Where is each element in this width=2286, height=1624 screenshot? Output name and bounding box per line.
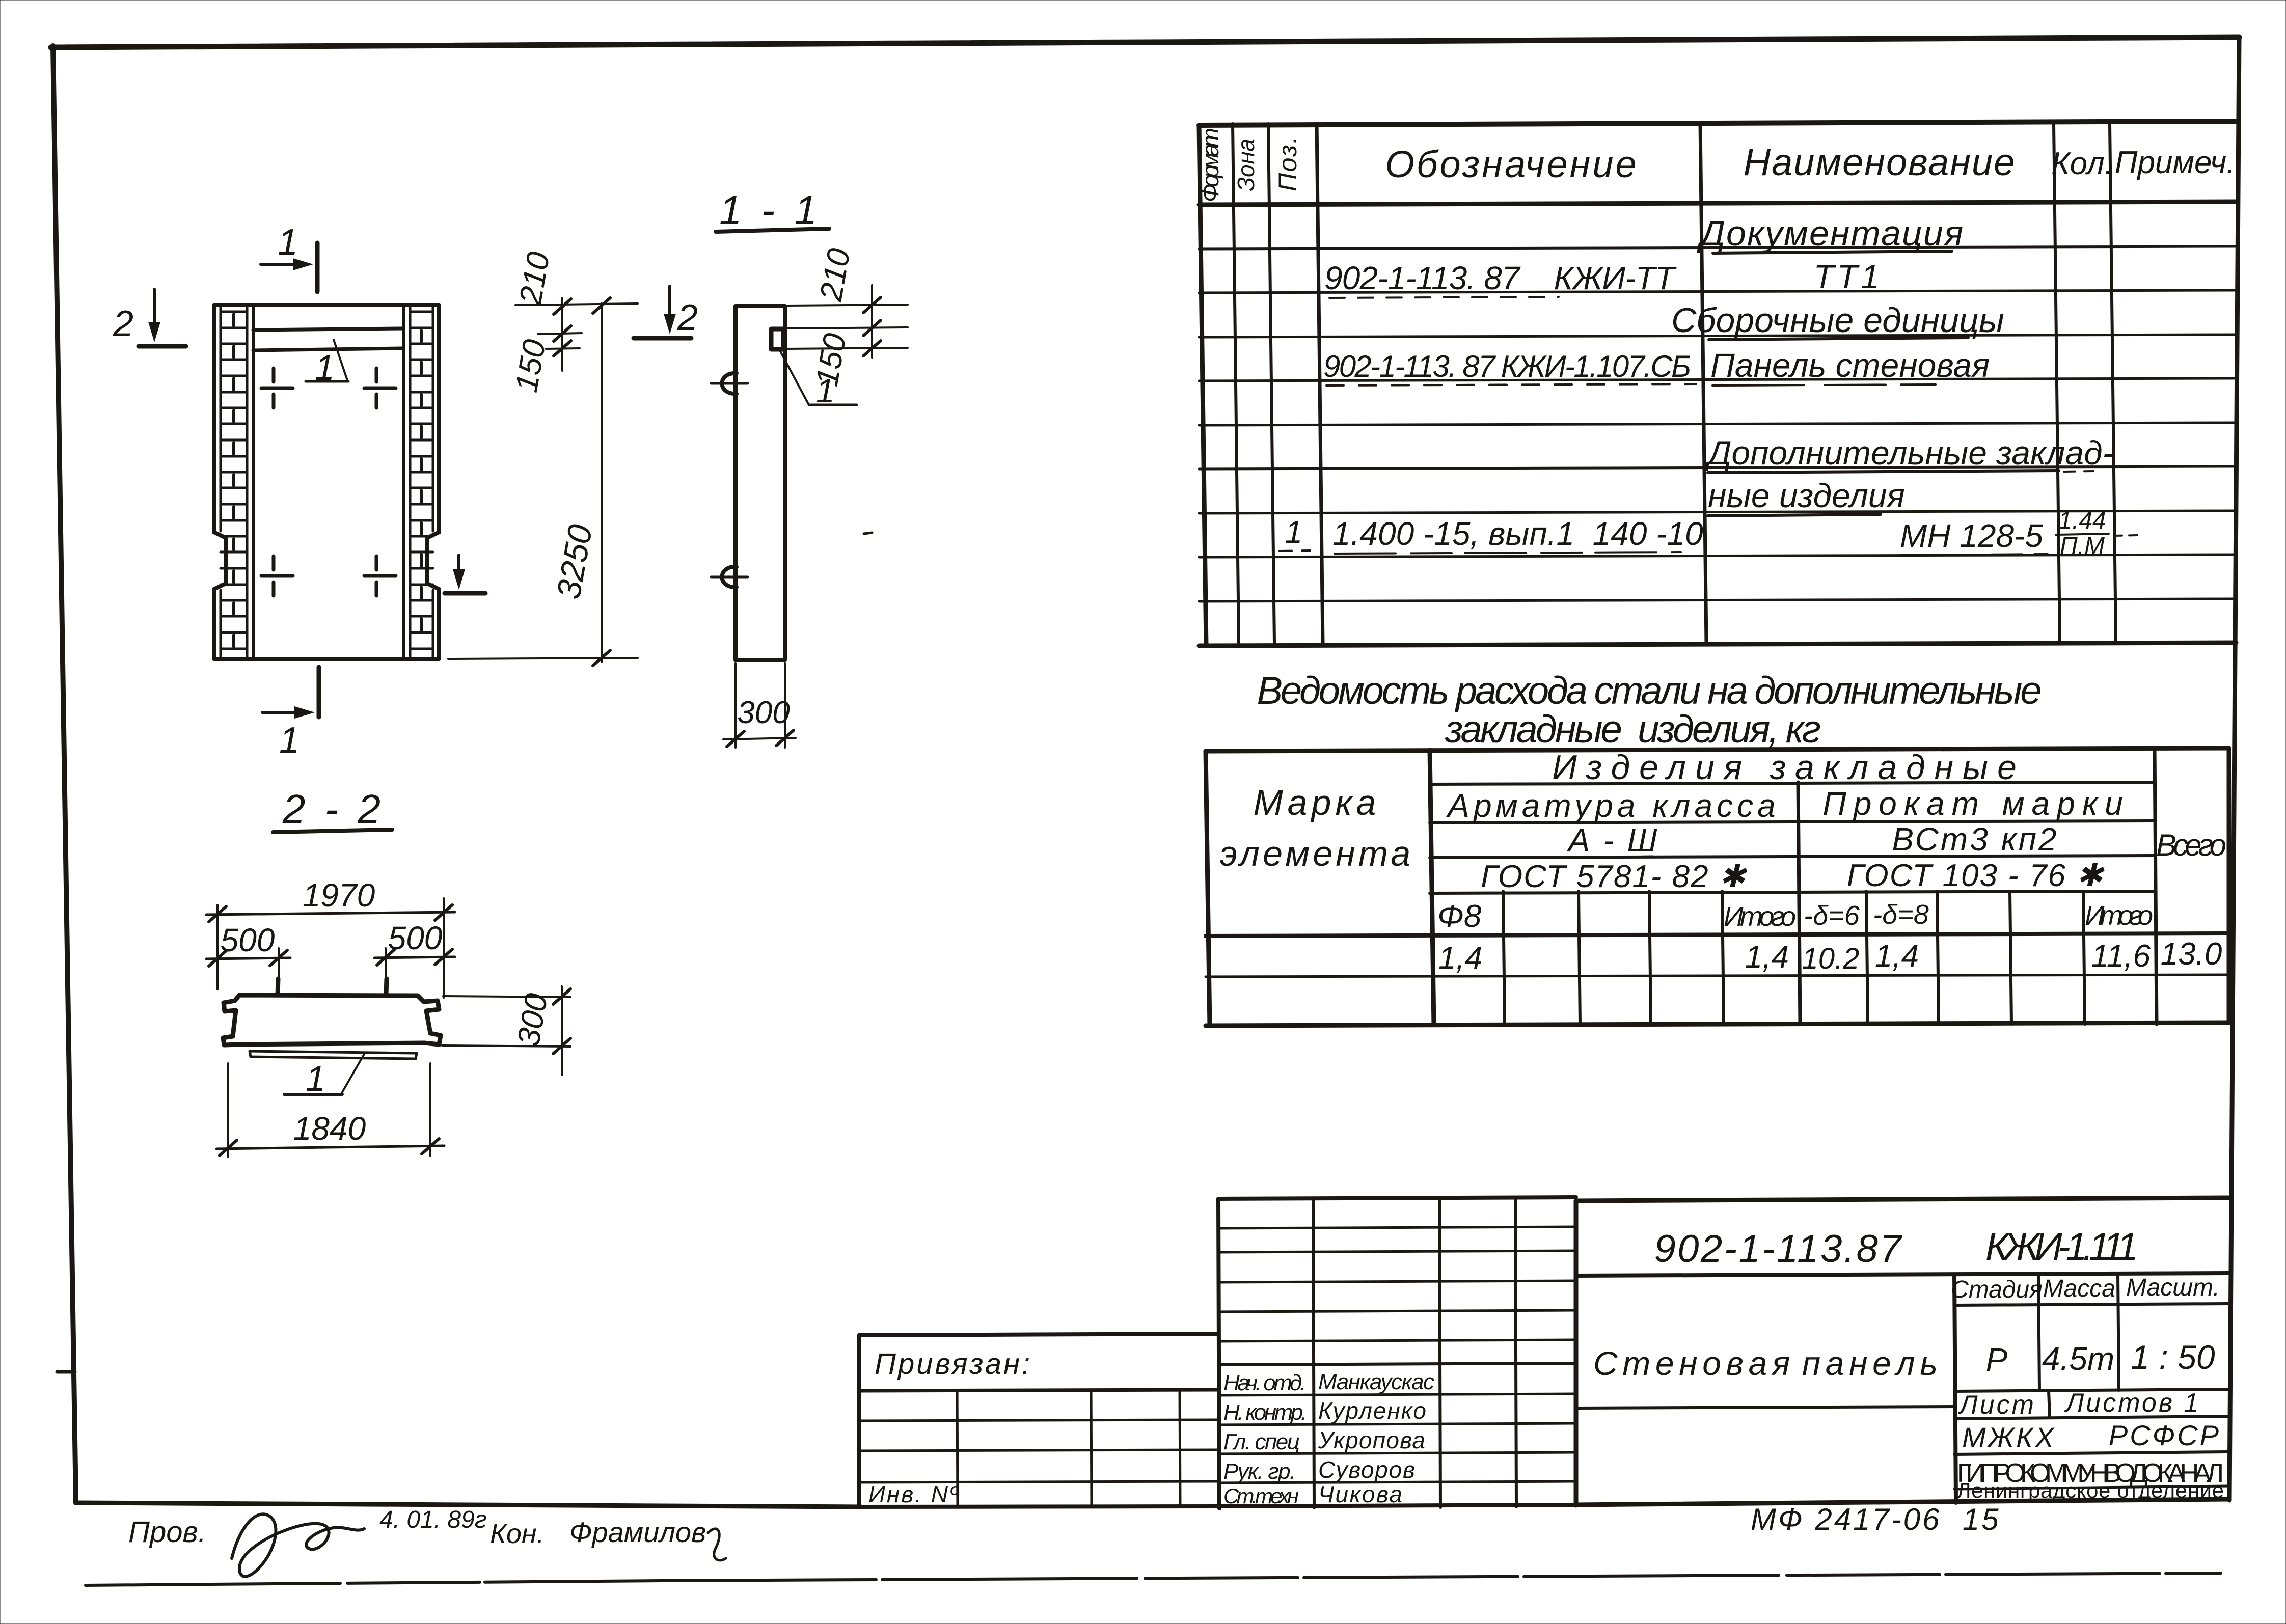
table header Арматура класса	[1446, 787, 1779, 824]
text ГИПРОКОММУНВОДОКАНАЛ	[1957, 1458, 2224, 1488]
text Привязан:	[875, 1347, 1032, 1381]
svg-text:Поз.: Поз.	[1273, 136, 1302, 191]
signature row Н. контр. Курленко	[1223, 1397, 1426, 1425]
svg-text:210: 210	[513, 250, 557, 308]
dimension text 3250	[549, 521, 599, 602]
svg-text:3250: 3250	[549, 521, 599, 602]
sheet frame left border	[53, 46, 76, 1503]
handwritten signature squiggle	[232, 1514, 364, 1576]
header Всего	[2156, 828, 2226, 862]
embedded plate strip under slab	[250, 1051, 417, 1059]
dimension extension lines section 1-1 top	[785, 305, 908, 349]
svg-text:Суворов: Суворов	[1318, 1456, 1415, 1483]
svg-text:300: 300	[511, 991, 555, 1049]
table header ГОСТ 5781-82	[1481, 859, 1748, 894]
title block v-line name/stamp divider	[1954, 1275, 1956, 1503]
svg-text:Гл. спец: Гл. спец	[1223, 1429, 1300, 1454]
svg-text:Чикова: Чикова	[1318, 1481, 1402, 1507]
subheader Итого (right)	[2085, 900, 2153, 931]
sheet frame bottom border	[76, 1503, 861, 1507]
svg-text:150: 150	[809, 331, 853, 389]
text 4.5т	[2042, 1340, 2114, 1377]
dimension text 150 (1-1)	[809, 331, 853, 389]
svg-text:Марка: Марка	[1254, 783, 1380, 822]
svg-text:Сборочные единицы: Сборочные единицы	[1671, 301, 2004, 340]
handwritten Пров.	[128, 1516, 206, 1549]
svg-text:Документация: Документация	[1697, 213, 1965, 253]
dimension 1840	[216, 1063, 444, 1157]
data 10.2	[1802, 942, 1860, 975]
specification table grid	[1199, 121, 2236, 646]
svg-text:закладные изделия, кг: закладные изделия, кг	[1445, 708, 1822, 751]
section mark 2 on section 1-1	[634, 286, 698, 338]
svg-text:500: 500	[221, 922, 275, 958]
line under Стеновая панель cell	[1576, 1407, 1954, 1408]
spec header label Зона (rotated)	[1233, 139, 1259, 191]
svg-text:Изделия закладные: Изделия закладные	[1552, 748, 2026, 787]
text Лист	[1958, 1390, 2036, 1420]
svg-text:Итого: Итого	[2085, 900, 2153, 931]
svg-text:Инв. Nº: Инв. Nº	[868, 1481, 960, 1507]
table header Прокат марки	[1822, 785, 2130, 822]
svg-text:Формат: Формат	[1197, 128, 1223, 202]
svg-text:Масса: Масса	[2043, 1275, 2115, 1302]
stray mark near section 1-1	[864, 533, 872, 534]
svg-text:Лист: Лист	[1958, 1390, 2036, 1420]
svg-text:Пров.: Пров.	[128, 1516, 206, 1549]
svg-text:1,4: 1,4	[1745, 940, 1789, 975]
svg-text:4. 01. 89г: 4. 01. 89г	[379, 1506, 487, 1533]
spec header Примеч.	[2115, 145, 2236, 180]
spec row Документация	[1697, 213, 1965, 253]
svg-text:Листов 1: Листов 1	[2064, 1388, 2201, 1418]
leader to item 1 (section 1-1)	[780, 351, 857, 409]
text Инв. №	[868, 1481, 960, 1507]
spec row Сборочные единицы	[1671, 301, 2004, 340]
svg-text:ГОСТ 103 - 76 ✱: ГОСТ 103 - 76 ✱	[1847, 858, 2105, 893]
svg-text:Дополнительные заклад-: Дополнительные заклад-	[1704, 434, 2114, 472]
svg-text:1: 1	[315, 348, 335, 388]
svg-text:11,6: 11,6	[2091, 939, 2151, 974]
dimension 300 bottom (1-1)	[723, 663, 796, 748]
svg-text:1,4: 1,4	[1438, 941, 1482, 976]
svg-text:4.5т: 4.5т	[2042, 1340, 2114, 1377]
front view: left strip tick dashes	[232, 314, 235, 647]
title block main outline	[1576, 1198, 2228, 1505]
dimension ticks	[554, 298, 610, 666]
line under МЖКХ РСФСР row	[1954, 1452, 2228, 1454]
spec row 1.44/П.М fraction	[2056, 507, 2137, 560]
svg-text:КЖИ-1.111: КЖИ-1.111	[1985, 1225, 2138, 1269]
spec row Панель стеновая	[1710, 346, 1990, 386]
svg-text:-δ=8: -δ=8	[1873, 899, 1929, 930]
svg-text:Масшт.: Масшт.	[2126, 1274, 2220, 1301]
text МФ 2417-06 15	[1751, 1502, 2001, 1536]
text 1:50	[2131, 1338, 2215, 1376]
section 2-2 heading	[273, 786, 392, 832]
svg-text:10.2: 10.2	[1802, 942, 1860, 975]
svg-text:Ст.техн: Ст.техн	[1223, 1484, 1299, 1508]
subheader -б=8	[1873, 899, 1929, 930]
spec header Наименование	[1744, 141, 2016, 183]
svg-text:Нач. отд.: Нач. отд.	[1223, 1370, 1306, 1395]
svg-text:Итого: Итого	[1724, 901, 1796, 932]
dimension 500 left	[206, 922, 290, 993]
svg-text:2: 2	[677, 297, 698, 338]
tick mark on left border	[57, 1370, 75, 1374]
leader to item 1 (section 2-2)	[284, 1053, 365, 1098]
svg-text:Примеч.: Примеч.	[2115, 145, 2236, 180]
svg-text:1970: 1970	[303, 877, 375, 914]
svg-text:Манкаускас: Манкаускас	[1318, 1369, 1434, 1394]
front view: loop center mark top-left	[261, 368, 293, 408]
section 2-2 slab outline	[223, 995, 441, 1045]
spec row ТТ1	[1813, 258, 1882, 295]
spec header Обозначение	[1385, 143, 1638, 185]
text Ленинградское отделение	[1957, 1478, 2224, 1502]
text КЖИ-1.111	[1985, 1225, 2138, 1269]
svg-text:1: 1	[1285, 515, 1302, 550]
heading line 2	[1445, 708, 1822, 751]
spec row МН 128-5	[1900, 517, 2048, 555]
signature row Нач. отд. Манкаускас	[1223, 1369, 1434, 1395]
svg-text:Стадия: Стадия	[1951, 1276, 2043, 1303]
table header ВСт3 кп2	[1892, 821, 2058, 858]
section 1-1 panel outline	[736, 306, 785, 660]
svg-text:Наименование: Наименование	[1744, 141, 2016, 183]
dimension ticks section 1-1	[863, 297, 881, 356]
lifting hook upper (section 1-1)	[711, 373, 748, 394]
front view: panel outline with keyed edges	[214, 305, 439, 659]
svg-text:Фрамилов: Фрамилов	[569, 1516, 706, 1548]
lifting hook lower (section 1-1)	[711, 567, 748, 587]
dimension text 210	[513, 250, 557, 308]
sheet frame top border	[51, 37, 2239, 47]
data 1,4 (итого арматура)	[1745, 940, 1789, 975]
sheet frame right border	[2229, 37, 2239, 1500]
svg-text:300: 300	[737, 695, 790, 730]
spec row 1.400-15, вып.1 140-10	[1332, 515, 1703, 554]
svg-text:1.400 -15, вып.1 140 -10: 1.400 -15, вып.1 140 -10	[1332, 515, 1703, 552]
dimension 300 right of section 2-2	[442, 986, 570, 1075]
dimension 500 right	[209, 920, 455, 993]
stadia masca mascht header row	[1954, 1274, 2228, 1390]
svg-text:С т е н о в а я п а н е л ь: С т е н о в а я п а н е л ь	[1593, 1344, 1938, 1382]
section mark 2 left	[113, 289, 186, 346]
text МЖКХ	[1962, 1421, 2056, 1453]
subheader Ф8	[1437, 899, 1482, 934]
text Листов 1	[2064, 1388, 2201, 1418]
svg-text:Обозначение: Обозначение	[1385, 143, 1638, 185]
data 13.0	[2161, 937, 2222, 972]
signature row Ст.техн Чикова	[1223, 1481, 1402, 1508]
svg-text:Φ8: Φ8	[1437, 899, 1482, 934]
spec header label Поз. (rotated)	[1273, 136, 1302, 191]
line under ГИПРОКОММУНВОДОКАНАЛ	[1954, 1486, 2228, 1489]
svg-text:2: 2	[113, 304, 133, 344]
svg-text:1,4: 1,4	[1875, 939, 1919, 974]
dimension line 210/150 section 1-1	[871, 285, 873, 357]
svg-text:Р: Р	[1986, 1341, 2008, 1378]
svg-text:150: 150	[509, 337, 553, 395]
loop stubs on slab top	[278, 979, 387, 995]
svg-text:Н. контр.: Н. контр.	[1223, 1400, 1307, 1425]
svg-text:210: 210	[813, 246, 857, 305]
title block h-line under doc number	[1576, 1273, 2228, 1276]
svg-text:ТТ1: ТТ1	[1813, 258, 1882, 295]
svg-text:Всего: Всего	[2156, 828, 2226, 862]
text Масшт.	[2126, 1274, 2220, 1301]
section 1-1 heading	[716, 187, 829, 233]
subheader Итого (left)	[1724, 901, 1796, 932]
section mark 1 bottom	[262, 667, 319, 761]
table header Марка элемента	[1220, 783, 1413, 873]
svg-text:Ленинградское отделение: Ленинградское отделение	[1957, 1478, 2224, 1502]
table header ГОСТ 103-76	[1847, 858, 2105, 893]
subheader -б=6	[1804, 900, 1860, 931]
svg-text:Рук. гр.: Рук. гр.	[1223, 1459, 1296, 1484]
front view: loop center mark top-right	[364, 368, 396, 408]
svg-text:Кон.: Кон.	[490, 1519, 545, 1549]
front view: top transverse lines	[253, 328, 402, 350]
spec row 902-1-113.87 КЖИ-ТТ	[1324, 260, 1677, 298]
front view: left keyed strip rungs	[221, 312, 247, 649]
svg-text:МН 128-5: МН 128-5	[1900, 517, 2043, 554]
svg-text:Курленко: Курленко	[1318, 1397, 1426, 1424]
signature row Рук. гр. Суворов	[1223, 1456, 1415, 1484]
spec row 902-1-113.87 КЖИ-1.107.СБ	[1323, 349, 1696, 386]
signature grid	[1218, 1197, 1576, 1508]
text Р	[1986, 1341, 2008, 1378]
steel consumption table grid	[1206, 748, 2229, 1026]
table header Изделия закладные	[1552, 748, 2026, 787]
svg-text:Панель стеновая: Панель стеновая	[1710, 346, 1990, 384]
svg-text:П.М: П.М	[2060, 533, 2105, 560]
front view: loop center mark bottom-right	[364, 556, 396, 596]
svg-text:1.44: 1.44	[2058, 507, 2106, 534]
text РСФСР	[2109, 1419, 2221, 1451]
spec header Кол.	[2051, 146, 2113, 181]
line under P/4.5t/1:50 row	[1954, 1389, 2228, 1391]
front view: leader flag 1 to top band	[306, 340, 348, 388]
svg-text:Ведомость расхода стали на доп: Ведомость расхода стали на дополнительны…	[1257, 669, 2044, 712]
svg-text:элемента: элемента	[1220, 834, 1413, 873]
front view: loop center mark bottom-left	[261, 556, 293, 596]
лист/листов divider and row line	[1954, 1390, 2228, 1419]
svg-text:1: 1	[306, 1059, 325, 1098]
привязан box	[859, 1334, 1218, 1507]
svg-text:ВСт3 кп2: ВСт3 кп2	[1892, 821, 2058, 858]
handwritten Фрамилов squiggle	[569, 1516, 726, 1560]
svg-text:А - Ш: А - Ш	[1566, 822, 1659, 859]
embedded plate item 1 in section 1-1	[771, 329, 783, 349]
dimension 1970	[206, 877, 455, 998]
text 902-1-113.87	[1654, 1227, 1903, 1271]
svg-text:1: 1	[278, 222, 298, 263]
svg-text:РСФСР: РСФСР	[2109, 1419, 2221, 1451]
svg-text:902-1-113. 87 КЖИ-1.107.СБ: 902-1-113. 87 КЖИ-1.107.СБ	[1323, 349, 1691, 383]
dimension extension lines front view right	[448, 304, 638, 659]
svg-text:1 - 1: 1 - 1	[719, 187, 821, 233]
svg-text:ные изделия: ные изделия	[1708, 477, 1905, 514]
svg-text:Зона: Зона	[1233, 139, 1259, 191]
front view: right strip inner double lines	[404, 306, 433, 658]
svg-text:МЖКХ: МЖКХ	[1962, 1421, 2056, 1453]
svg-text:Прокат марки: Прокат марки	[1822, 785, 2130, 822]
svg-text:500: 500	[388, 920, 443, 956]
signature row Гл. спец Укропова	[1223, 1427, 1425, 1454]
spec row ные изделия	[1708, 477, 1905, 516]
section mark 1 top	[261, 222, 317, 292]
text Стеновая панель	[1593, 1344, 1938, 1382]
handwritten date 4.01.89г	[379, 1506, 487, 1533]
svg-text:-δ=6: -δ=6	[1804, 900, 1860, 931]
spec header label Формат (rotated)	[1197, 128, 1223, 202]
data 1,4 (б=8)	[1875, 939, 1919, 974]
svg-text:Укропова: Укропова	[1318, 1427, 1425, 1453]
svg-text:1 : 50: 1 : 50	[2131, 1338, 2215, 1376]
dimension line vertical 210/150/3250	[562, 298, 602, 662]
svg-text:13.0: 13.0	[2161, 937, 2222, 972]
spec row poz 1	[1280, 515, 1310, 551]
svg-text:Арматура класса: Арматура класса	[1446, 787, 1779, 824]
svg-text:902-1-113. 87 КЖИ-ТТ: 902-1-113. 87 КЖИ-ТТ	[1324, 260, 1677, 296]
svg-text:МФ 2417-06 15: МФ 2417-06 15	[1751, 1502, 2001, 1536]
front view: right strip tick dashes	[420, 331, 423, 630]
dimension text 210 (1-1)	[813, 246, 857, 305]
svg-text:1840: 1840	[293, 1110, 366, 1147]
heading Ведомость расхода стали line 1	[1257, 669, 2044, 712]
svg-text:ГОСТ 5781- 82 ✱: ГОСТ 5781- 82 ✱	[1481, 859, 1748, 894]
section mark 2 right	[445, 555, 485, 593]
data 11,6	[2091, 939, 2151, 974]
table header А-III	[1566, 822, 1659, 859]
svg-text:Кол.: Кол.	[2051, 146, 2113, 181]
front view: left strip inner double lines	[221, 306, 253, 658]
text Масса	[2043, 1275, 2115, 1302]
text Стадия	[1951, 1276, 2043, 1303]
dimension text 150	[509, 337, 553, 395]
svg-text:Привязан:: Привязан:	[875, 1347, 1032, 1381]
spec row Дополнительные заклад-	[1704, 434, 2114, 473]
svg-text:2 - 2: 2 - 2	[282, 786, 385, 832]
front view: right keyed strip rungs	[410, 312, 433, 649]
svg-text:902-1-113.87: 902-1-113.87	[1654, 1227, 1903, 1271]
data 1,4 (Ф8)	[1438, 941, 1482, 976]
svg-text:1: 1	[279, 720, 300, 761]
handwritten Кон.	[490, 1519, 545, 1549]
paper edge line bottom	[86, 1573, 2221, 1585]
